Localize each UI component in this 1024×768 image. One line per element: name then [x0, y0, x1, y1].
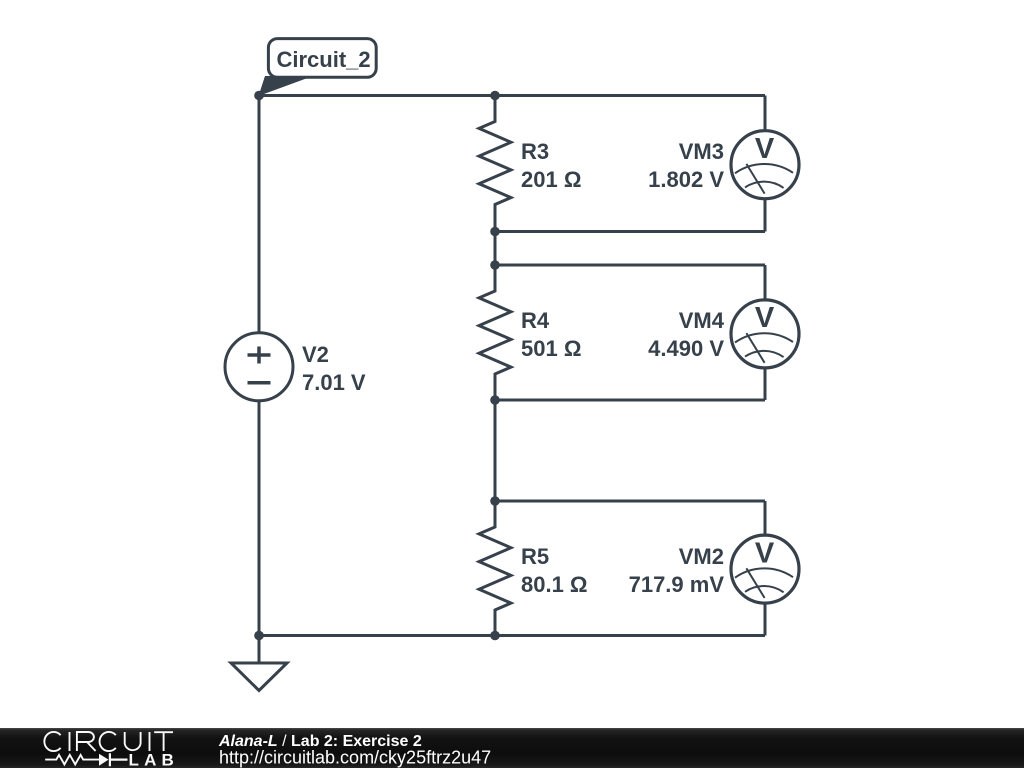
- svg-text:LAB: LAB: [129, 751, 180, 768]
- resistor R3: [479, 96, 511, 232]
- voltmeter VM3: [731, 131, 799, 199]
- ground symbol triangle: [231, 663, 287, 691]
- wire: left vertical rail from V2 bottom to bottom rail: [258, 401, 261, 636]
- callout Circuit_2 box: [268, 39, 376, 78]
- wire: row3 top rail: [495, 500, 765, 503]
- wire: bottom rail: [259, 634, 765, 637]
- junction dot R4 top: [490, 260, 500, 270]
- wire: row1 bottom rail: [495, 230, 765, 233]
- wire: middle segment between row1 and row2: [494, 232, 497, 266]
- junction dot R5 bottom: [490, 631, 500, 641]
- svg-text:4.490 V: 4.490 V: [648, 336, 724, 361]
- callout Circuit_2 tail: [259, 76, 314, 96]
- resistor R4: [479, 265, 511, 400]
- wire: VM4 bottom lead: [764, 368, 767, 400]
- wire: row2 bottom rail: [495, 399, 765, 402]
- svg-text:V2: V2: [302, 342, 329, 367]
- wire: VM2 top lead: [764, 501, 767, 535]
- svg-text:80.1 Ω: 80.1 Ω: [521, 572, 588, 597]
- wire: ground stub: [258, 636, 261, 664]
- svg-text:R3: R3: [521, 139, 549, 164]
- resistor R5: [479, 501, 511, 636]
- wire: middle segment between row2 and row3: [494, 400, 497, 501]
- logo resistor zigzag: [45, 755, 99, 765]
- wire: left vertical rail from node A to V2 top: [258, 96, 261, 333]
- junction dot R3 top: [490, 91, 500, 101]
- wire: VM3 top lead: [764, 96, 767, 131]
- wire: top rail from node A to VM3 drop: [259, 94, 765, 97]
- svg-text:V: V: [755, 133, 775, 165]
- voltmeter VM2: [731, 535, 799, 603]
- voltage source V2 circle: [225, 333, 293, 401]
- svg-text:V: V: [755, 302, 775, 334]
- svg-text:http://circuitlab.com/cky25ftr: http://circuitlab.com/cky25ftrz2u47: [219, 748, 491, 768]
- svg-text:7.01 V: 7.01 V: [302, 370, 366, 395]
- svg-text:V: V: [755, 537, 775, 569]
- wire: row2 top rail: [495, 264, 765, 267]
- voltmeter VM4: [731, 300, 799, 368]
- svg-text:VM2: VM2: [679, 544, 724, 569]
- svg-text:VM4: VM4: [679, 308, 725, 333]
- wire: VM2 bottom lead: [764, 603, 767, 635]
- junction dot R3 bottom: [490, 227, 500, 237]
- junction dot R4 bottom: [490, 395, 500, 405]
- svg-text:201 Ω: 201 Ω: [521, 167, 581, 192]
- wire: VM3 bottom lead: [764, 199, 767, 232]
- svg-text:VM3: VM3: [679, 139, 724, 164]
- svg-text:R5: R5: [521, 544, 549, 569]
- logo diode symbol: [99, 754, 109, 766]
- svg-text:1.802 V: 1.802 V: [648, 167, 724, 192]
- svg-text:501 Ω: 501 Ω: [521, 336, 581, 361]
- wire: VM4 top lead: [764, 265, 767, 300]
- svg-text:717.9 mV: 717.9 mV: [629, 572, 725, 597]
- svg-text:R4: R4: [521, 308, 550, 333]
- junction dot bottom-left node: [254, 631, 264, 641]
- node A junction dot (top-left): [254, 91, 264, 101]
- svg-text:Circuit_2: Circuit_2: [277, 47, 371, 72]
- V2 minus sign: [248, 381, 271, 385]
- junction dot R5 top: [490, 496, 500, 506]
- logo CIRCUIT word: [44, 732, 173, 751]
- V2 plus sign: [248, 347, 271, 364]
